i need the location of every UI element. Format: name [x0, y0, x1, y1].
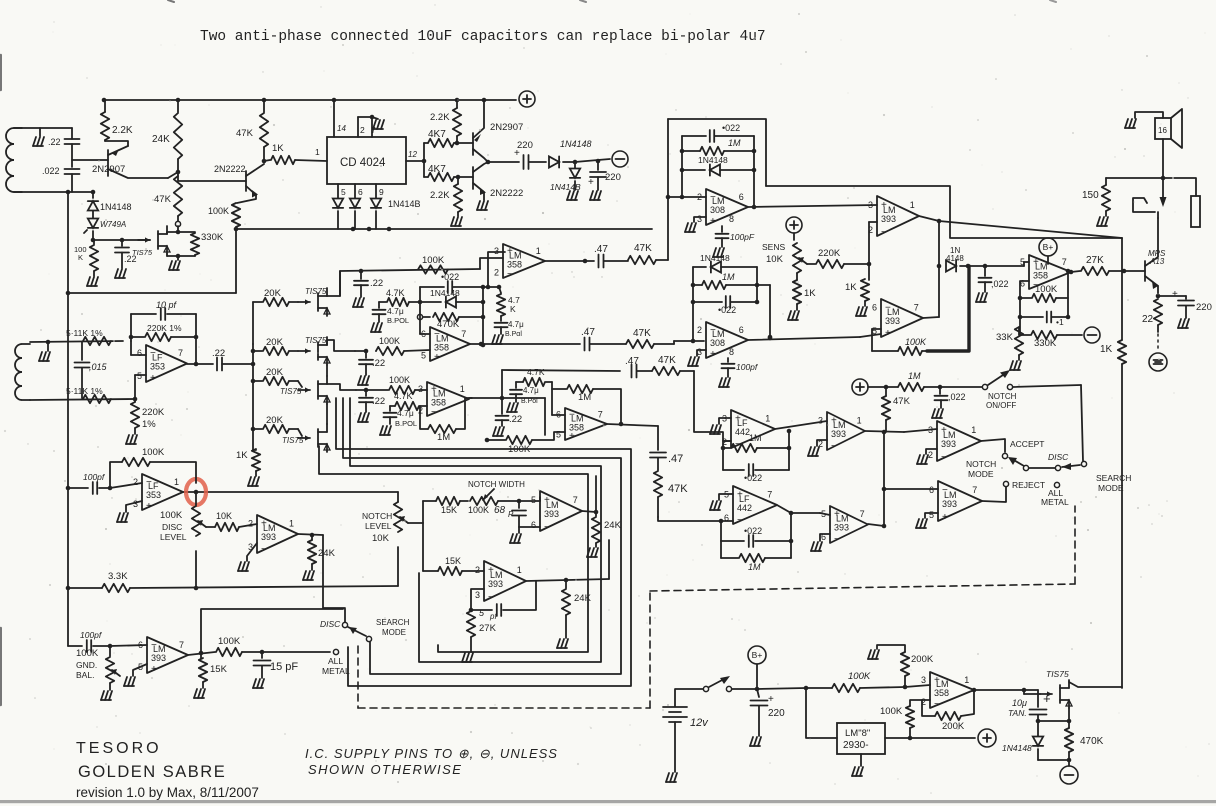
svg-text:12v: 12v — [690, 717, 709, 729]
fb right 442-2 — [790, 513, 792, 541]
resistor R5 100K — [93, 240, 95, 244]
svg-text:−: − — [881, 227, 887, 238]
riser notch2 out — [608, 540, 610, 579]
cap .022 308-2 — [693, 301, 722, 303]
out wire notch cmp — [582, 511, 596, 512]
contact SEARCH 2 — [366, 636, 371, 641]
bold trace — [927, 266, 969, 351]
svg-text:4.7μ: 4.7μ — [523, 386, 539, 395]
transistor Q5 2N2222 — [472, 167, 474, 189]
svg-text:NOTCH: NOTCH — [966, 459, 996, 469]
speaker top wire — [1135, 112, 1163, 118]
ground 220K vert — [126, 435, 129, 444]
row0 resistor 20K — [252, 302, 254, 344]
blade disc2 — [348, 627, 366, 636]
cap .22 B — [365, 351, 367, 358]
svg-text:TIS75: TIS75 — [1046, 669, 1069, 679]
feedback 1M D — [552, 388, 566, 390]
ground .022 notch — [932, 409, 935, 418]
ground 100pf 308-2 — [719, 378, 722, 387]
cap .47 rowB — [584, 338, 586, 351]
svg-text:393: 393 — [885, 316, 900, 326]
svg-text:.22: .22 — [212, 348, 225, 359]
svg-text:+: + — [881, 200, 887, 211]
svg-text:100pf: 100pf — [736, 362, 759, 372]
diode D3 pin5 — [337, 184, 339, 198]
svg-text:2: 2 — [360, 125, 365, 135]
bus wire 1 — [336, 398, 631, 686]
svg-text:220: 220 — [768, 708, 785, 719]
cap 100pf 308-2 — [727, 358, 729, 362]
fb right vert — [1067, 271, 1069, 317]
red circle annotation — [186, 479, 206, 505]
res 5.11K top — [83, 337, 111, 345]
out wire 393r3 — [981, 439, 1005, 452]
svg-text:4.7K: 4.7K — [394, 391, 413, 401]
svg-text:2: 2 — [133, 477, 138, 487]
diode D7 1N4148 vert — [574, 162, 576, 168]
wire zener to gate node — [92, 231, 94, 240]
res 47K col — [654, 471, 662, 497]
svg-text:220: 220 — [517, 140, 533, 151]
ground R12 — [451, 217, 454, 226]
ground speaker — [1125, 119, 1128, 128]
reg out to plus — [910, 737, 975, 739]
res 22 — [1154, 299, 1162, 325]
wire 47K col to 442-2 — [658, 517, 721, 521]
diode D4 pin6 — [354, 184, 356, 198]
svg-text:7: 7 — [1062, 257, 1067, 267]
res 1M notch — [868, 386, 898, 388]
transistor Q4 2N2907 — [472, 133, 474, 155]
scan speckle — [394, 123, 396, 125]
svg-text:358: 358 — [431, 397, 446, 407]
res 47K rowC — [637, 370, 652, 372]
terminal plus — [519, 91, 535, 107]
svg-text:4.7μ: 4.7μ — [508, 320, 524, 329]
zener D2 W749A — [92, 211, 94, 218]
ground Q5 emitter — [477, 201, 480, 210]
svg-text:393: 393 — [942, 499, 957, 509]
cap .22 C — [365, 390, 367, 396]
coil L1 — [14, 127, 22, 129]
svg-text:1N4148: 1N4148 — [430, 288, 460, 298]
svg-text:B.POL: B.POL — [387, 316, 409, 325]
pin6 gnd 393c2 — [820, 534, 830, 541]
terminal tip — [1149, 353, 1167, 371]
svg-text:+: + — [150, 373, 156, 384]
svg-text:100K: 100K — [218, 636, 241, 647]
ground D7 — [567, 191, 570, 200]
fb .022 442-2 — [721, 540, 744, 542]
svg-text:P: P — [508, 510, 514, 519]
reg gnd — [860, 754, 862, 766]
ground battery — [666, 773, 669, 782]
opamp U3B LM358 — [565, 408, 607, 440]
svg-text:−: − — [710, 325, 716, 336]
svg-text:+: + — [934, 675, 940, 686]
row0 out wire — [327, 271, 340, 296]
svg-text:−: − — [737, 515, 743, 526]
svg-text:B.Pαl: B.Pαl — [505, 331, 522, 338]
svg-text:+: + — [942, 512, 948, 523]
svg-text:1: 1 — [765, 413, 770, 423]
svg-text:393: 393 — [831, 429, 846, 439]
bus vert 393 — [883, 432, 885, 526]
wire R10 to Q5 base — [458, 176, 473, 178]
svg-text:5: 5 — [1020, 257, 1025, 267]
svg-text:+: + — [1033, 257, 1039, 268]
IC U1 CD4024 — [327, 137, 406, 184]
svg-text:1: 1 — [536, 246, 541, 256]
svg-text:+: + — [544, 495, 550, 506]
svg-text:1N4148: 1N4148 — [700, 253, 730, 263]
svg-text:10μ: 10μ — [1012, 698, 1027, 708]
svg-text:16: 16 — [1158, 126, 1167, 135]
svg-text:−: − — [146, 477, 152, 488]
svg-text:+: + — [146, 501, 152, 512]
svg-text:SENS: SENS — [762, 242, 785, 252]
row2 resistor 20K — [253, 380, 262, 382]
svg-text:7: 7 — [972, 485, 977, 495]
cap .015 — [81, 342, 83, 360]
cap 15pF typed — [261, 652, 263, 658]
cap .022 notch — [939, 387, 941, 394]
feedback box A left — [419, 287, 421, 315]
bus wire 4 — [319, 446, 588, 652]
battery gnd wire — [674, 722, 676, 772]
riser to rowC — [501, 370, 503, 398]
svg-text:METAL: METAL — [1041, 497, 1069, 507]
svg-text:1M: 1M — [722, 272, 735, 282]
svg-text:+: + — [834, 509, 840, 520]
resistor R9 4K7 upper — [424, 142, 428, 144]
svg-text:pf: pf — [489, 612, 497, 621]
svg-text:47K: 47K — [633, 328, 651, 339]
svg-text:3: 3 — [475, 590, 480, 600]
svg-text:1K: 1K — [236, 450, 248, 461]
wire blade to DISC — [1029, 467, 1055, 469]
ground 24K bl2 — [303, 571, 306, 580]
transistor Q3 T1575 — [138, 239, 150, 241]
svg-text:+: + — [507, 246, 513, 257]
svg-text:1N414B: 1N414B — [388, 199, 421, 209]
wiper disc level — [206, 526, 215, 528]
svg-text:2: 2 — [248, 518, 253, 528]
B+ stub — [1047, 256, 1049, 264]
plus terminal notch — [852, 379, 868, 395]
svg-text:4.7μ: 4.7μ — [387, 306, 404, 316]
res 220K 1pc vert — [134, 399, 136, 402]
svg-text:1N4148: 1N4148 — [560, 139, 592, 149]
svg-text:B+: B+ — [752, 650, 763, 660]
svg-text:1N4148: 1N4148 — [100, 202, 132, 212]
svg-text:4.7K: 4.7K — [386, 288, 405, 298]
ground .22 C — [358, 413, 361, 422]
svg-text:Two anti-phase connected 10uF: Two anti-phase connected 10uF capacitors… — [200, 29, 766, 45]
opamp U5B LM393 — [881, 299, 923, 337]
feedback 1M C — [420, 406, 428, 429]
wire 2N2222 Q2 base — [178, 172, 246, 181]
terminal minus2 — [1084, 327, 1100, 343]
svg-text:2: 2 — [494, 267, 499, 277]
scan edge top marks — [168, 0, 174, 2]
svg-text:2N2222: 2N2222 — [214, 164, 246, 174]
res 24K notch — [595, 512, 597, 516]
wire to minus term — [575, 160, 598, 162]
svg-text:+: + — [434, 352, 440, 363]
pin5 gnd 442-2 — [719, 494, 733, 500]
resistor R10 4K7 lower — [423, 161, 425, 177]
svg-text:200K: 200K — [942, 721, 965, 732]
wire battery top — [675, 689, 703, 706]
capacitor .022 A — [420, 286, 444, 288]
wire jack to collector — [1157, 212, 1159, 218]
svg-text:LEVEL: LEVEL — [365, 521, 392, 531]
svg-text:GOLDEN SABRE: GOLDEN SABRE — [78, 763, 226, 781]
input riser 308-1 — [667, 119, 669, 260]
row1 resistor 20K — [253, 350, 262, 352]
svg-text:MODE: MODE — [1098, 483, 1124, 493]
cap .47 rowC — [631, 365, 633, 378]
battery switch — [703, 686, 708, 691]
cap .022 cmp — [984, 266, 986, 276]
wire pin6 353-1 — [131, 354, 146, 356]
fb box 308-2 left — [692, 267, 694, 341]
svg-text:1: 1 — [857, 415, 862, 425]
svg-text:•022: •022 — [744, 526, 762, 536]
junction dots on rail — [102, 98, 107, 103]
out wire bl2 — [298, 534, 323, 535]
terminal minus psu — [1060, 766, 1078, 784]
dashed box bottom — [358, 707, 650, 709]
res 47K notch — [885, 387, 887, 396]
cap 100pf in — [68, 487, 88, 489]
svg-text:100K: 100K — [160, 510, 183, 521]
row0 fet T1575 — [298, 301, 310, 303]
wire rowB to 308-2 — [673, 341, 675, 344]
pin5 wire notch cmp — [519, 500, 540, 502]
ground 4.7u D — [507, 403, 510, 412]
resistor 470K A — [423, 316, 430, 318]
svg-text:−: − — [710, 192, 716, 203]
svg-text:100K: 100K — [208, 206, 229, 216]
opamp U2B LM358 — [430, 327, 470, 361]
osc bottom wire — [68, 292, 236, 294]
transistor Q1 2N2907 — [107, 150, 109, 176]
opamp U9A LM393 — [827, 412, 865, 450]
cap 4.7u C — [389, 406, 391, 411]
regulator U15 LM2930 — [837, 723, 885, 754]
svg-text:393: 393 — [834, 523, 849, 533]
pin 12 wire — [406, 160, 424, 162]
svg-text:330K: 330K — [1034, 338, 1057, 349]
svg-text:5: 5 — [556, 429, 561, 439]
svg-text:6: 6 — [138, 640, 143, 650]
svg-text:B.Pol: B.Pol — [521, 398, 538, 405]
svg-text:47K: 47K — [658, 355, 676, 366]
wire coil L1 bottom — [14, 191, 93, 193]
fb 1M 442-2 — [720, 541, 722, 558]
opamp U6 LM308 — [706, 322, 748, 358]
fb box 308-1 left — [681, 136, 683, 197]
svg-text:14: 14 — [337, 124, 346, 133]
reg output wire — [885, 737, 910, 739]
ground 15pF — [253, 679, 256, 688]
svg-text:DISC: DISC — [320, 619, 341, 629]
svg-text:22: 22 — [1142, 314, 1154, 325]
svg-text:+: + — [151, 664, 157, 675]
svg-text:7: 7 — [573, 495, 578, 505]
opamp U11A LM393 notch — [540, 491, 582, 531]
resistor 100K A-in — [418, 265, 448, 273]
pot bottom disc — [195, 551, 197, 588]
svg-text:100pf: 100pf — [80, 630, 103, 640]
svg-text:+: + — [885, 328, 891, 339]
out wire U2B — [470, 343, 580, 345]
contact circle osc — [175, 221, 180, 226]
svg-text:7: 7 — [860, 509, 865, 519]
ground 24K notch — [587, 548, 590, 557]
junction out 353-2 — [195, 491, 197, 493]
fet drain to rail — [1069, 682, 1122, 687]
svg-text:.22: .22 — [48, 137, 61, 147]
svg-text:4.7K: 4.7K — [527, 367, 545, 377]
svg-text:2.2K: 2.2K — [430, 112, 450, 123]
svg-text:9: 9 — [379, 187, 384, 197]
svg-text:10K: 10K — [372, 533, 390, 544]
pin3 gnd 308-1 — [694, 217, 706, 222]
pot SENS 10K — [793, 233, 795, 240]
ground 4.7u bias — [492, 335, 495, 344]
opamp U14A LM358 psu — [930, 672, 974, 708]
svg-text:+: + — [737, 489, 743, 500]
contact DISC 2 — [342, 622, 347, 627]
wire Q3 source — [166, 254, 168, 256]
notch switch — [940, 386, 982, 388]
pin5 100K — [355, 350, 364, 352]
ground 68p — [510, 534, 513, 543]
resistor 1K col — [253, 449, 256, 451]
svg-text:+: + — [1172, 289, 1178, 300]
bus wire 2 — [343, 398, 621, 674]
res 100K D — [506, 436, 532, 444]
bottom node wire — [1038, 759, 1069, 761]
riser notch out — [595, 476, 597, 512]
diode 1N4148 cmp — [946, 260, 956, 271]
wire to 393r3 — [904, 429, 937, 432]
opamp U5A LM393 — [877, 196, 919, 236]
svg-text:W749A: W749A — [100, 220, 126, 229]
contact ACCEPT — [1002, 453, 1007, 458]
svg-text:15 pF: 15 pF — [270, 661, 298, 673]
opamp U3A LM358 — [427, 382, 469, 416]
capacitor .022 C2 — [65, 168, 80, 170]
cap 220 psu — [757, 689, 759, 697]
svg-text:−: − — [507, 269, 513, 280]
svg-text:358: 358 — [434, 342, 449, 352]
out wire U3B — [607, 424, 658, 426]
wire Q2 collector — [262, 159, 267, 164]
svg-text:1: 1 — [971, 425, 976, 435]
pot NOTCH LEVEL 10K — [397, 492, 399, 502]
svg-text:.47: .47 — [668, 453, 683, 465]
svg-text:308: 308 — [710, 338, 725, 348]
svg-text:68: 68 — [494, 505, 506, 516]
out wire 442-2 — [777, 505, 791, 513]
cap .47 col — [650, 452, 666, 454]
svg-text:47K: 47K — [893, 396, 911, 407]
scan edge left — [0, 55, 2, 90]
res 150 — [1106, 177, 1163, 179]
right vertical Q2 emitter col — [235, 229, 237, 293]
res 10K disc — [215, 523, 239, 531]
out wire psu opamp — [974, 689, 1024, 691]
bus wire 3 — [350, 398, 601, 662]
diode D1 1N4148 — [92, 192, 94, 198]
svg-text:K: K — [510, 304, 516, 314]
res 100K hyst — [872, 328, 881, 330]
row1 out wire — [327, 340, 355, 351]
svg-text:ACCEPT: ACCEPT — [1010, 439, 1044, 449]
svg-text:393: 393 — [544, 509, 559, 519]
capacitor C3 .22 — [121, 240, 123, 246]
cap 10u TAN — [1024, 689, 1038, 691]
svg-text:+: + — [488, 565, 494, 576]
svg-text:27K: 27K — [479, 623, 497, 634]
svg-text:220K: 220K — [142, 407, 165, 418]
svg-text:2930-: 2930- — [843, 740, 869, 751]
wire pin1 — [295, 160, 327, 161]
transistor Q2 2N2222 — [245, 171, 247, 191]
fb .022 442-1 — [723, 469, 744, 471]
svg-text:TIS75: TIS75 — [305, 336, 327, 345]
resistor 4.7K netA — [379, 301, 386, 303]
svg-text:+: + — [710, 349, 716, 360]
pin3 gnd 442-1 — [719, 418, 731, 424]
ground gnd bal — [109, 683, 111, 690]
pot bottom notch — [397, 547, 399, 586]
pins 2 7 loop — [357, 117, 359, 137]
pin2 riser 393-1 — [868, 222, 870, 264]
svg-text:4K7: 4K7 — [428, 164, 446, 175]
svg-text:ON/OFF: ON/OFF — [986, 401, 1016, 410]
wire out node — [488, 161, 519, 163]
svg-text:METAL: METAL — [322, 666, 350, 676]
resistor R7 47K — [263, 100, 265, 112]
capacitor .22 netA — [360, 271, 362, 279]
svg-text:393: 393 — [261, 532, 276, 542]
dotted stub — [1157, 334, 1159, 352]
coil L2 — [22, 343, 30, 345]
svg-text:470K: 470K — [1080, 736, 1104, 747]
res 24K notch2 — [565, 580, 567, 588]
terminal B+ psu — [748, 646, 766, 664]
svg-text:47K: 47K — [154, 194, 172, 205]
row3 fet T1575 — [298, 437, 310, 439]
jack right plate — [1163, 178, 1196, 196]
resistor R11 2.2K top — [456, 100, 458, 108]
wire base Q1 — [72, 159, 108, 161]
res 1K sens2 — [868, 264, 870, 280]
svg-text:10 pf: 10 pf — [156, 300, 178, 310]
svg-text:•022: •022 — [722, 123, 740, 133]
svg-text:+: + — [831, 415, 837, 426]
opamp U10B LM393 right lower — [938, 481, 982, 521]
pin6 wire notch cmp — [519, 526, 540, 528]
svg-text:220: 220 — [605, 172, 621, 183]
res 100K bl — [216, 648, 242, 656]
